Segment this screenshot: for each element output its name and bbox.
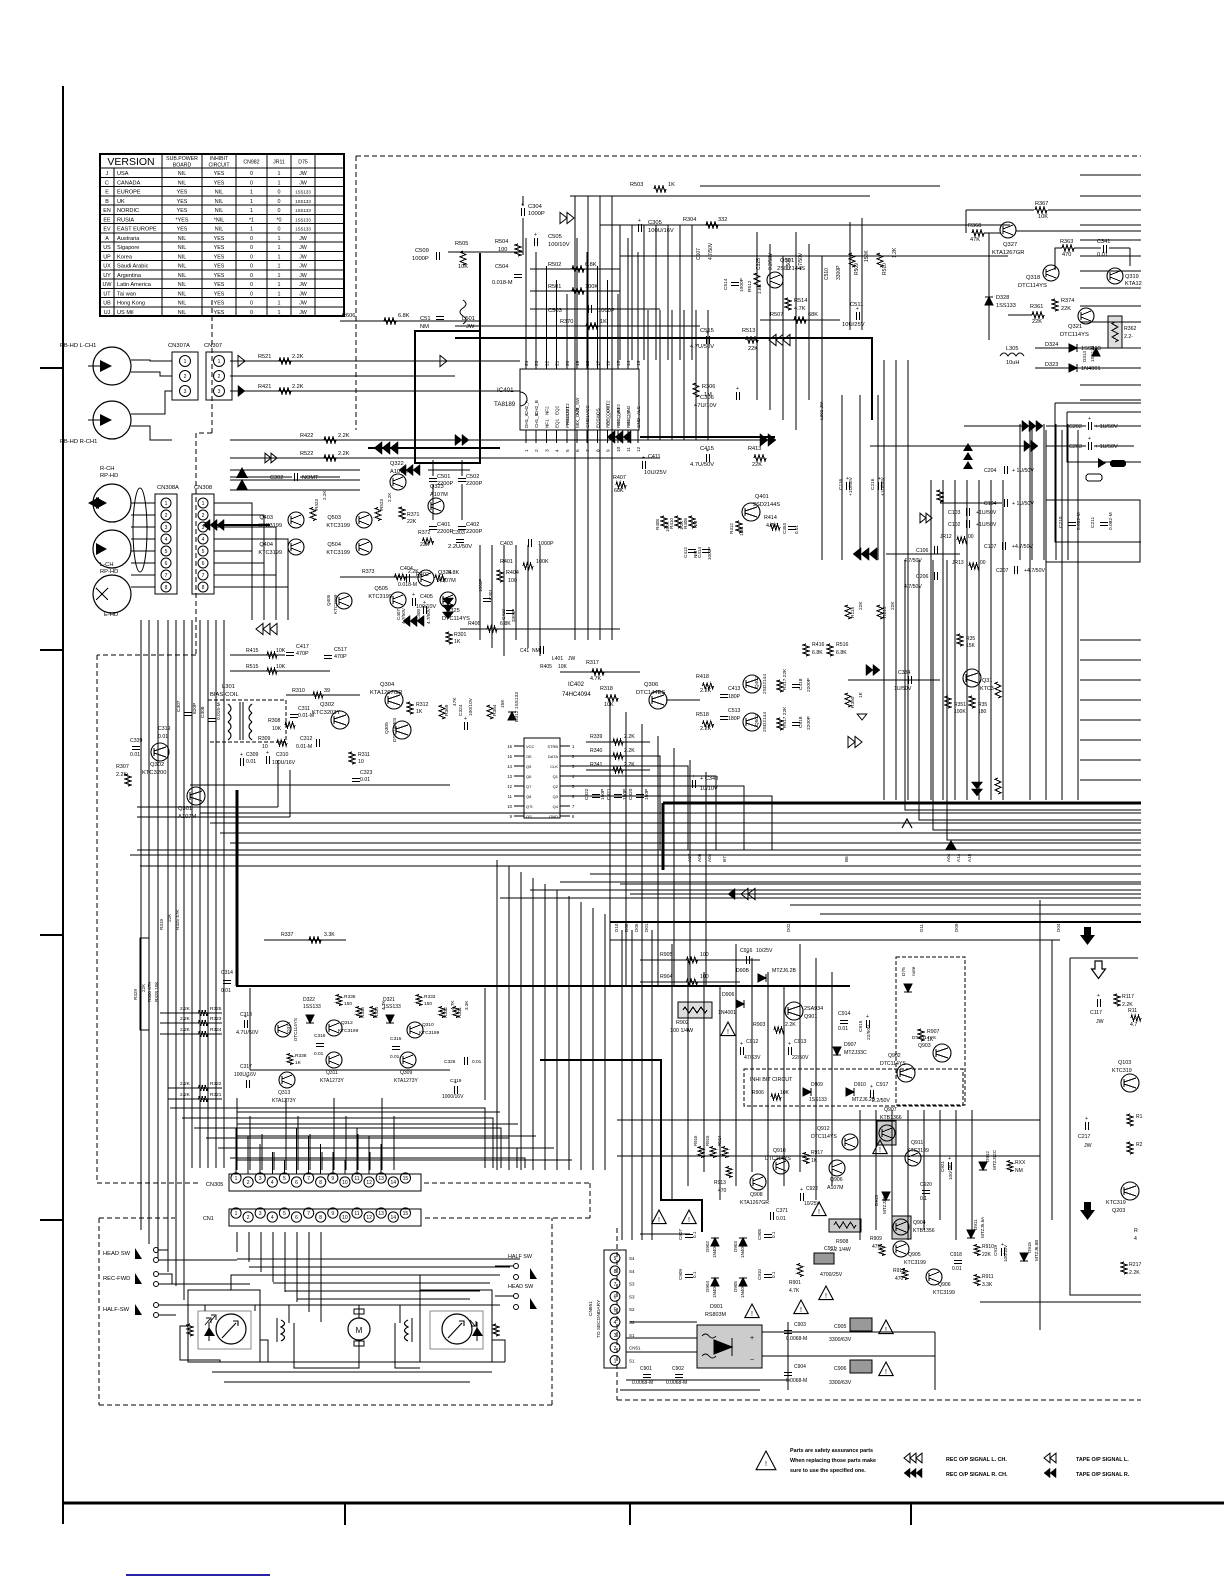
legend REC L arrow (904, 1453, 922, 1463)
transistor Q311 (326, 1052, 342, 1068)
svg-text:C312: C312 (300, 736, 313, 742)
svg-text:JW: JW (299, 273, 307, 279)
head board dashed boundary (211, 300, 213, 433)
wire mesh right edge stubs (1080, 174, 1141, 176)
svg-text:Q309: Q309 (400, 1070, 412, 1076)
svg-text:!: ! (818, 1209, 820, 1216)
svg-text:C914: C914 (838, 1011, 851, 1017)
svg-text:C505: C505 (548, 234, 562, 240)
head cable bundle (133, 488, 147, 572)
resistor R2xx (1127, 1142, 1133, 1154)
svg-text:R319: R319 (159, 919, 164, 930)
svg-text:150P: 150P (600, 789, 606, 800)
svg-text:R310: R310 (292, 688, 305, 694)
transistor Q303 (331, 711, 349, 729)
IC401 pin 18 (586, 357, 588, 369)
resistor R911 (974, 1275, 980, 1286)
svg-text:!: ! (885, 1327, 887, 1334)
vertical rails top centre (619, 225, 621, 360)
svg-text:1N4001: 1N4001 (1081, 366, 1101, 372)
wire mesh verticals right band lower (1029, 430, 1031, 800)
svg-text:A107M: A107M (430, 492, 448, 498)
transistor Q905 (893, 1241, 909, 1257)
svg-text:C322: C322 (584, 788, 590, 800)
mechanism lower wires (200, 1361, 505, 1363)
svg-text:470: 470 (895, 1276, 904, 1282)
svg-text:3.3K: 3.3K (982, 1282, 993, 1288)
bus zigzag right (995, 778, 1001, 794)
svg-text:1: 1 (278, 245, 281, 251)
svg-text:R306: R306 (702, 384, 715, 390)
svg-text:Q103: Q103 (1118, 1060, 1131, 1066)
IC401 pin 3 (545, 430, 547, 443)
svg-text:R407: R407 (613, 475, 626, 481)
svg-text:PB-HD L-CH1: PB-HD L-CH1 (60, 343, 96, 349)
legend TAPE R arrow (1044, 1468, 1056, 1478)
svg-text:KTC3199: KTC3199 (907, 1148, 929, 1154)
svg-text:0.0068-M: 0.0068-M (666, 1380, 687, 1386)
svg-text:C514: C514 (723, 278, 729, 290)
svg-text:JW: JW (299, 180, 307, 186)
svg-text:1SS133: 1SS133 (383, 1004, 401, 1010)
svg-text:12: 12 (636, 446, 642, 452)
transistor Q319 (1107, 268, 1123, 284)
svg-text:YES: YES (214, 236, 225, 242)
svg-text:KTC3: KTC3 (980, 686, 994, 692)
svg-text:3300/63V: 3300/63V (829, 1380, 852, 1386)
svg-text:68K: 68K (808, 312, 818, 318)
svg-text:47U/10V: 47U/10V (694, 403, 717, 409)
svg-text:R503: R503 (630, 182, 643, 188)
svg-text:R904: R904 (660, 974, 673, 980)
svg-text:Q313: Q313 (278, 1090, 290, 1096)
transistor Q908 (750, 1174, 766, 1190)
legend REC R arrow (904, 1468, 922, 1478)
svg-text:1: 1 (614, 1359, 617, 1365)
svg-text:2: 2 (534, 449, 540, 452)
svg-text:2.2K: 2.2K (1129, 1270, 1140, 1276)
svg-text:S1: S1 (629, 1358, 635, 1363)
IC402 pin 6 (560, 795, 570, 797)
svg-text:00: 00 (980, 560, 986, 566)
svg-text:+ 1U/50V: + 1U/50V (1012, 501, 1034, 507)
svg-text:0.01: 0.01 (794, 525, 799, 534)
svg-text:D904: D904 (705, 1281, 710, 1292)
svg-text:R911: R911 (982, 1274, 994, 1280)
svg-text:22K: 22K (420, 542, 430, 548)
svg-text:8: 8 (319, 1180, 322, 1186)
svg-text:R329: R329 (133, 989, 138, 1000)
svg-text:R515: R515 (246, 664, 259, 670)
svg-text:Q8: Q8 (526, 794, 532, 799)
svg-text:S1: S1 (629, 1333, 635, 1338)
svg-text:8: 8 (165, 585, 168, 591)
svg-text:1SS133: 1SS133 (295, 199, 311, 204)
svg-text:100: 100 (498, 247, 507, 253)
svg-text:R908: R908 (836, 1239, 849, 1245)
svg-text:10K: 10K (458, 264, 468, 270)
svg-text:1: 1 (250, 227, 253, 233)
svg-text:L401: L401 (552, 656, 563, 662)
resistor R1xx (1127, 1114, 1133, 1126)
svg-text:C919: C919 (993, 1245, 998, 1256)
svg-text:1: 1 (250, 208, 253, 214)
svg-text:0: 0 (250, 291, 253, 297)
resistor R331 (453, 1007, 459, 1018)
wire mesh left bundle staircase (140, 1168, 142, 1230)
svg-text:YES: YES (214, 282, 225, 288)
svg-text:EAST EUROPE: EAST EUROPE (117, 227, 157, 233)
svg-text:R915: R915 (705, 1135, 710, 1146)
svg-text:0.01-M: 0.01-M (296, 744, 312, 750)
svg-text:RP-HD: RP-HD (100, 473, 118, 479)
svg-text:UT: UT (103, 291, 111, 297)
svg-text:4: 4 (165, 537, 168, 543)
resistor R215 (877, 605, 883, 619)
IC401 pin 4 (556, 430, 558, 443)
svg-text:Q324: Q324 (438, 570, 452, 576)
wire R521 bus (230, 360, 520, 362)
svg-text:When replacing those parts mak: When replacing those parts make (790, 1458, 876, 1464)
bridge output wires (762, 1331, 935, 1333)
svg-text:+1U/50V: +1U/50V (848, 476, 854, 496)
svg-text:C901: C901 (640, 1366, 652, 1372)
svg-text:KTA1267GR: KTA1267GR (740, 1200, 769, 1206)
svg-text:Q6: Q6 (526, 774, 532, 779)
svg-text:10K: 10K (276, 664, 286, 670)
svg-text:Q310: Q310 (422, 1022, 434, 1028)
svg-text:MTZJ12C: MTZJ12C (992, 1149, 997, 1170)
IC402 pin 12 (514, 785, 524, 787)
svg-text:22K: 22K (1032, 319, 1042, 325)
resistor R351 (945, 696, 951, 708)
resistor R369 (439, 705, 445, 719)
svg-text:1000P: 1000P (739, 278, 745, 292)
svg-text:S4: S4 (629, 1269, 635, 1274)
svg-text:1K: 1K (811, 1158, 818, 1164)
svg-text:DTC144ES: DTC144ES (636, 690, 665, 696)
svg-text:Q901: Q901 (804, 1014, 817, 1020)
svg-text:C918: C918 (950, 1252, 962, 1258)
svg-text:R324: R324 (210, 1027, 222, 1033)
svg-text:1K: 1K (295, 1060, 302, 1066)
transistor Q327 (1000, 222, 1016, 238)
transistor Q315 (963, 669, 981, 687)
svg-text:R404: R404 (506, 570, 519, 576)
svg-text:E: E (105, 190, 109, 196)
svg-text:PREOUT1: PREOUT1 (565, 406, 570, 428)
svg-text:B: B (105, 199, 109, 205)
svg-text:15: 15 (616, 360, 622, 366)
svg-text:6: 6 (295, 1215, 298, 1221)
svg-text:1K: 1K (600, 319, 607, 325)
diode D907 (833, 1047, 841, 1055)
svg-text:2.2K: 2.2K (408, 569, 419, 575)
svg-text:+ 1U/50V: + 1U/50V (1095, 424, 1118, 430)
svg-text:0: 0 (250, 245, 253, 251)
svg-text:CN51: CN51 (629, 1346, 641, 1351)
svg-text:Sigapore: Sigapore (117, 245, 139, 251)
svg-text:TAPE O/P SIGNAL R.: TAPE O/P SIGNAL R. (1076, 1472, 1130, 1478)
svg-text:Q3: Q3 (553, 794, 559, 799)
svg-text:NM: NM (420, 324, 429, 330)
svg-text:1K: 1K (416, 709, 423, 715)
svg-text:Q405: Q405 (326, 594, 331, 606)
svg-text:5: 5 (165, 549, 168, 555)
svg-text:+: + (948, 1156, 951, 1162)
IC401 pin 14 (627, 357, 629, 369)
svg-text:D902: D902 (705, 1241, 710, 1252)
resistor R335 (356, 1007, 362, 1018)
rec bus arrow 2 (399, 464, 420, 475)
svg-text:MTZJ6.2B: MTZJ6.2B (772, 968, 796, 974)
svg-text:19: 19 (575, 360, 581, 366)
svg-text:R907: R907 (927, 1029, 940, 1035)
svg-text:1: 1 (278, 273, 281, 279)
svg-text:10: 10 (342, 1215, 348, 1221)
svg-text:Q403: Q403 (259, 515, 273, 521)
svg-text:PB-HD R-CH1: PB-HD R-CH1 (60, 439, 97, 445)
resistor R332 (439, 1007, 445, 1018)
svg-text:R2: R2 (1136, 1142, 1143, 1148)
svg-text:C305: C305 (648, 220, 662, 226)
wire mesh verticals power (621, 930, 623, 1240)
svg-text:7: 7 (165, 573, 168, 579)
svg-text:1: 1 (250, 190, 253, 196)
IC402 pin 16 (514, 745, 524, 747)
svg-text:C308: C308 (200, 706, 206, 718)
svg-text:C910: C910 (757, 1269, 762, 1280)
svg-text:1SS133: 1SS133 (996, 303, 1016, 309)
svg-text:R517 22K: R517 22K (782, 706, 788, 728)
resistor R353 15K (957, 634, 963, 646)
svg-text:100 1/4W: 100 1/4W (670, 1028, 694, 1034)
svg-text:KTA1273Y: KTA1273Y (272, 1098, 296, 1104)
solenoid left (276, 1318, 278, 1342)
svg-text:+: + (746, 950, 749, 956)
transistor Q906 A107M (829, 1160, 845, 1176)
svg-text:5: 5 (283, 1176, 286, 1182)
svg-text:Korea: Korea (117, 254, 133, 260)
svg-text:R11: R11 (1128, 1008, 1137, 1014)
svg-text:C371: C371 (776, 1208, 788, 1214)
svg-text:+4.7/50V: +4.7/50V (1024, 568, 1045, 574)
svg-text:!: ! (765, 1461, 767, 1468)
svg-text:47K: 47K (452, 697, 458, 706)
svg-text:C909: C909 (678, 1269, 683, 1280)
capacitor C501 (429, 478, 437, 480)
svg-text:IC401: IC401 (497, 387, 514, 394)
svg-text:A: A (105, 236, 109, 242)
svg-text:R373: R373 (362, 569, 375, 575)
svg-text:DTC114YS: DTC114YS (1060, 332, 1089, 338)
resistor R301 (446, 632, 452, 644)
svg-text:1SS133: 1SS133 (303, 1004, 321, 1010)
svg-text:YES: YES (214, 264, 225, 270)
svg-text:C510: C510 (824, 268, 830, 280)
resistor R312 (407, 702, 413, 714)
capacitor C304 (521, 208, 523, 216)
IC401 pin 13 (637, 357, 639, 369)
svg-text:NF2: NF2 (544, 406, 549, 415)
svg-text:6: 6 (614, 1295, 617, 1301)
svg-text:JW: JW (1096, 1019, 1104, 1025)
svg-text:D322: D322 (303, 997, 315, 1003)
svg-text:3.3K: 3.3K (464, 1000, 469, 1010)
svg-text:2SD2144S: 2SD2144S (753, 502, 780, 508)
svg-text:C310: C310 (276, 752, 289, 758)
left bundle loop (140, 938, 149, 1030)
black arrow down top (1080, 927, 1095, 945)
svg-text:10K: 10K (780, 1090, 790, 1096)
svg-text:C309: C309 (246, 752, 259, 758)
svg-text:14: 14 (626, 360, 632, 366)
svg-text:3: 3 (259, 1211, 262, 1217)
svg-text:NIL: NIL (178, 264, 186, 270)
svg-text:note: note (911, 966, 917, 976)
svg-text:1SS133: 1SS133 (295, 190, 311, 195)
thick bus top IC401 (455, 338, 872, 420)
right column rails (1039, 900, 1041, 1330)
IC401 pin 21 (556, 357, 558, 369)
svg-text:2.2K: 2.2K (180, 1027, 191, 1033)
svg-text:4: 4 (614, 1320, 617, 1326)
svg-text:C906: C906 (834, 1366, 847, 1372)
svg-text:Q902: Q902 (888, 1053, 901, 1059)
svg-text:C51: C51 (420, 316, 431, 322)
svg-text:3: 3 (184, 389, 187, 395)
svg-text:J: J (106, 171, 109, 177)
svg-text:Q327: Q327 (1003, 242, 1017, 248)
svg-text:HEAD SW: HEAD SW (508, 1284, 534, 1290)
svg-text:S3: S3 (629, 1294, 635, 1299)
svg-text:BIAS-COIL: BIAS-COIL (210, 692, 239, 698)
IC402 pin 1 (560, 745, 570, 747)
svg-text:C915: C915 (858, 1020, 864, 1032)
svg-text:MIX_OUT: MIX_OUT (575, 407, 580, 428)
svg-text:2: 2 (165, 513, 168, 519)
svg-text:C517: C517 (334, 647, 347, 653)
power lower horizontals (630, 1321, 697, 1323)
svg-text:DTC114YS: DTC114YS (880, 1061, 906, 1067)
resistor R370 (455, 325, 700, 327)
svg-text:10: 10 (342, 1180, 348, 1186)
svg-text:D90B: D90B (736, 968, 750, 974)
svg-text:1: 1 (202, 501, 205, 507)
wire bus lower set (620, 865, 1141, 867)
svg-text:R350: R350 (850, 696, 856, 708)
IC401 pin 16 (607, 357, 609, 369)
svg-text:C509: C509 (415, 248, 429, 254)
wire R422 bus (230, 439, 760, 441)
resistor R337 (264, 939, 346, 941)
resistor R505 (460, 251, 466, 265)
svg-text:14: 14 (507, 764, 512, 769)
IC401 pin 20 (566, 357, 568, 369)
svg-text:R518: R518 (696, 712, 709, 718)
svg-text:39: 39 (324, 688, 330, 694)
svg-text:1K: 1K (858, 691, 864, 698)
svg-text:Q304: Q304 (380, 682, 395, 688)
svg-text:1SS133: 1SS133 (295, 217, 311, 222)
svg-text:A15: A15 (967, 853, 972, 862)
svg-text:5: 5 (202, 549, 205, 555)
svg-text:YES: YES (214, 245, 225, 251)
svg-text:CN308: CN308 (194, 485, 212, 491)
svg-text:8: 8 (202, 585, 205, 591)
svg-text:GND: GND (549, 814, 558, 819)
svg-text:2: 2 (247, 1215, 250, 1221)
IC402 pin 8 (560, 815, 570, 817)
resistor R410 (675, 516, 681, 528)
IC401 pin 7 (586, 430, 588, 443)
svg-text:+: + (534, 232, 537, 238)
resistor R913 (726, 1167, 732, 1178)
svg-text:YES: YES (214, 273, 225, 279)
svg-text:REC_NF1: REC_NF1 (616, 407, 621, 428)
svg-text:!: ! (727, 1029, 729, 1036)
svg-text:1000P: 1000P (412, 256, 429, 262)
svg-text:D907: D907 (844, 1042, 857, 1048)
svg-text:Q'S: Q'S (526, 804, 533, 809)
svg-text:4.7U/50V: 4.7U/50V (690, 462, 714, 468)
resistor R374 (1052, 299, 1058, 311)
svg-text:E-HD: E-HD (104, 612, 118, 618)
record head L-CH RP-HD (93, 530, 131, 568)
svg-text:7: 7 (307, 1176, 310, 1182)
transistor Q906b (926, 1269, 942, 1285)
main board dashed boundary (356, 155, 1141, 157)
svg-text:0.1: 0.1 (692, 1271, 697, 1278)
svg-text:0.01: 0.01 (390, 1054, 400, 1060)
diode D903 (739, 1238, 747, 1246)
svg-text:*YES: *YES (176, 217, 189, 223)
svg-text:3300P: 3300P (836, 265, 842, 280)
svg-text:0.01: 0.01 (158, 734, 168, 740)
svg-text:DTC114YS: DTC114YS (811, 1134, 837, 1140)
wire bus y850 long (137, 849, 1141, 851)
resistor R340 (586, 755, 650, 757)
svg-text:1: 1 (278, 310, 281, 316)
svg-text:D328: D328 (996, 295, 1009, 301)
svg-text:D75: D75 (901, 967, 907, 976)
svg-text:UB: UB (103, 301, 111, 307)
transistor Q309 (400, 1052, 416, 1068)
svg-text:C920: C920 (920, 1182, 932, 1188)
svg-text:R334: R334 (374, 1007, 379, 1018)
svg-text:+: + (856, 306, 859, 312)
svg-text:+: + (692, 774, 695, 780)
svg-text:100/10V: 100/10V (1003, 1244, 1008, 1262)
transistor Q501 (767, 272, 783, 288)
svg-text:1: 1 (278, 180, 281, 186)
svg-text:DTC114YS: DTC114YS (1018, 283, 1047, 289)
svg-text:22: 22 (544, 360, 550, 366)
svg-text:Hong Kong: Hong Kong (117, 301, 145, 307)
resistor R908 flameproof (829, 1219, 861, 1232)
IC402 pin 2 (560, 755, 570, 757)
svg-text:+: + (412, 592, 415, 598)
svg-text:+ C348: + C348 (700, 776, 718, 782)
svg-text:C411: C411 (648, 454, 661, 460)
transistor Q403 (288, 512, 304, 528)
svg-text:INHI BIT CIRCUT: INHI BIT CIRCUT (750, 1077, 793, 1083)
svg-text:R412: R412 (729, 523, 734, 534)
svg-text:R307: R307 (116, 764, 129, 770)
svg-text:20: 20 (565, 360, 571, 366)
svg-text:R311: R311 (358, 752, 370, 758)
transistor Q323 (428, 498, 444, 514)
